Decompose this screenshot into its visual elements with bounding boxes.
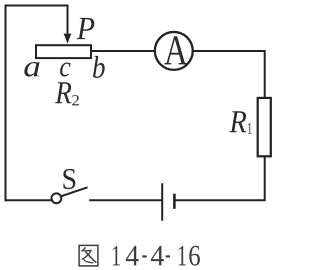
- resistor R1 body: [258, 98, 271, 156]
- switch S lever: [61, 188, 86, 197]
- wire ammeter to top-right corner: [194, 51, 265, 97]
- label c: [60, 63, 70, 77]
- wire switch to bottom-left corner: [6, 199, 52, 201]
- caption number 14-4-16: [113, 246, 200, 266]
- ammeter letter A: [164, 36, 187, 64]
- wire rheostat to ammeter: [92, 50, 155, 52]
- wire left and top sides: [6, 6, 68, 201]
- battery cell long plate: [161, 184, 163, 220]
- slider arrow P: [64, 33, 72, 43]
- ammeter A: [155, 32, 193, 70]
- switch S pivot circle: [52, 193, 62, 203]
- potentiometer R2 body: [36, 45, 91, 58]
- wire R1 to bottom-right corner: [176, 157, 265, 200]
- label a: [24, 62, 39, 77]
- caption hanzi tu (drawn strokes): [79, 245, 98, 266]
- label P: [77, 18, 95, 39]
- label R1: [229, 111, 251, 134]
- wire battery to switch: [90, 199, 161, 201]
- battery cell short plate: [173, 195, 176, 208]
- label S: [63, 169, 75, 189]
- label b: [93, 56, 105, 78]
- label R2: [55, 82, 79, 105]
